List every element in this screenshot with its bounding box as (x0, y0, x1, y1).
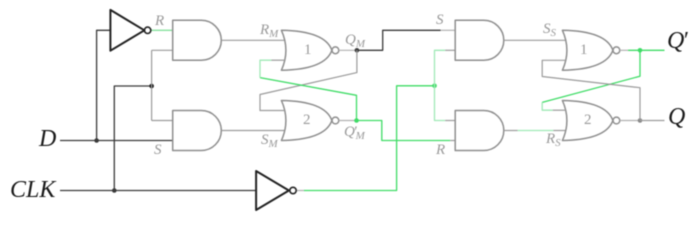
and-gate A4 slave bottom (455, 111, 504, 151)
label Q_M (345, 32, 365, 50)
nor-gate N3 slave (562, 30, 613, 70)
label R node slave (436, 142, 445, 159)
node QprimeM dot green (354, 118, 359, 123)
inverter U2 (CLK) (256, 171, 289, 210)
wire R_S gray stub from AND (504, 130, 518, 132)
label Q (668, 104, 685, 131)
node Qprime dot (638, 48, 643, 53)
wire CLK vertical between AND inputs (151, 50, 153, 120)
wire into NOR1 lower input gray (271, 59, 285, 61)
node D branch dot (94, 138, 99, 143)
label CLK (10, 177, 55, 204)
wire R green inverter output to AND1 (151, 29, 172, 31)
wire S_M (221, 130, 285, 132)
wire into slave NOR2 upper input gray (553, 109, 566, 111)
wire QprimeM stub from bubble (339, 120, 357, 122)
wire QprimeM to R (green) (357, 121, 451, 141)
wire Q_M stub from bubble (339, 49, 357, 51)
wire into slave AND1 lower input gray (445, 49, 455, 51)
node CLKbar dot green (432, 84, 437, 89)
node Q_M dot (355, 48, 360, 53)
label D (39, 126, 56, 153)
label gate number 2 master (303, 112, 311, 129)
label QprimeM (344, 124, 365, 142)
wire QprimeM feedback pale elbow (260, 60, 271, 77)
wire D input horizontal (60, 140, 173, 142)
label S_M (261, 132, 278, 150)
wire into slave AND2 upper input gray (445, 120, 455, 122)
wire D to inverter vertical (97, 30, 111, 140)
wire Qprime green (628, 49, 664, 51)
wire R_M (221, 39, 285, 41)
label R_S (546, 131, 561, 149)
wire S_S (504, 39, 566, 41)
inverter U1 (D to R) (110, 10, 144, 51)
wire CLK branch up to AND gates (114, 86, 151, 191)
label gate number 1 slave (580, 42, 588, 59)
node CLK/AND junction dot (149, 84, 154, 89)
label S node (154, 142, 162, 159)
nor-gate N1 master (281, 30, 332, 70)
wire stub into AND1 lower input (152, 49, 173, 51)
wire R into slave AND2 gray (450, 140, 455, 142)
wire CLK input horizontal (60, 190, 256, 192)
label S_S (543, 21, 556, 39)
wire S into slave AND1 (441, 29, 456, 31)
wire CLKbar pale down to slave AND2 (435, 86, 446, 121)
node Q dot (638, 118, 643, 123)
label gate number 1 master (304, 42, 312, 59)
and-gate A3 slave top (455, 20, 504, 60)
label S node slave (436, 12, 444, 29)
label R node (155, 13, 164, 30)
and-gate A2 master bottom (173, 111, 222, 151)
wire Q out (640, 120, 665, 122)
wire CLKbar green run (304, 86, 435, 191)
wire Q stub (620, 120, 640, 122)
wire Qprime feedback green crossing (542, 50, 640, 102)
wire Q_M feedback gray crossing (260, 50, 357, 110)
label gate number 2 slave (584, 112, 592, 129)
wire Qprime feedback pale elbow (542, 102, 553, 110)
wire R_S gray into NOR2 slave (553, 130, 566, 132)
label R_M (260, 22, 278, 40)
wire R_S pale green middle (518, 130, 554, 132)
wire stub into AND2 upper input (152, 120, 173, 122)
nor-gate N2 master (281, 101, 332, 141)
wire Q feedback gray crossing (542, 60, 640, 120)
wire Qprime stub (620, 49, 628, 51)
nor-gate N4 slave (562, 101, 613, 141)
node CLK branch dot (112, 188, 117, 193)
wire Q_M to S (black) (357, 30, 441, 50)
label Qprime (667, 28, 688, 55)
and-gate A1 master top (173, 20, 222, 60)
wire CLKbar pale up to slave AND1 (435, 50, 446, 86)
wire CLKbar stub (297, 190, 304, 192)
wire QprimeM feedback green crossing (260, 78, 357, 121)
